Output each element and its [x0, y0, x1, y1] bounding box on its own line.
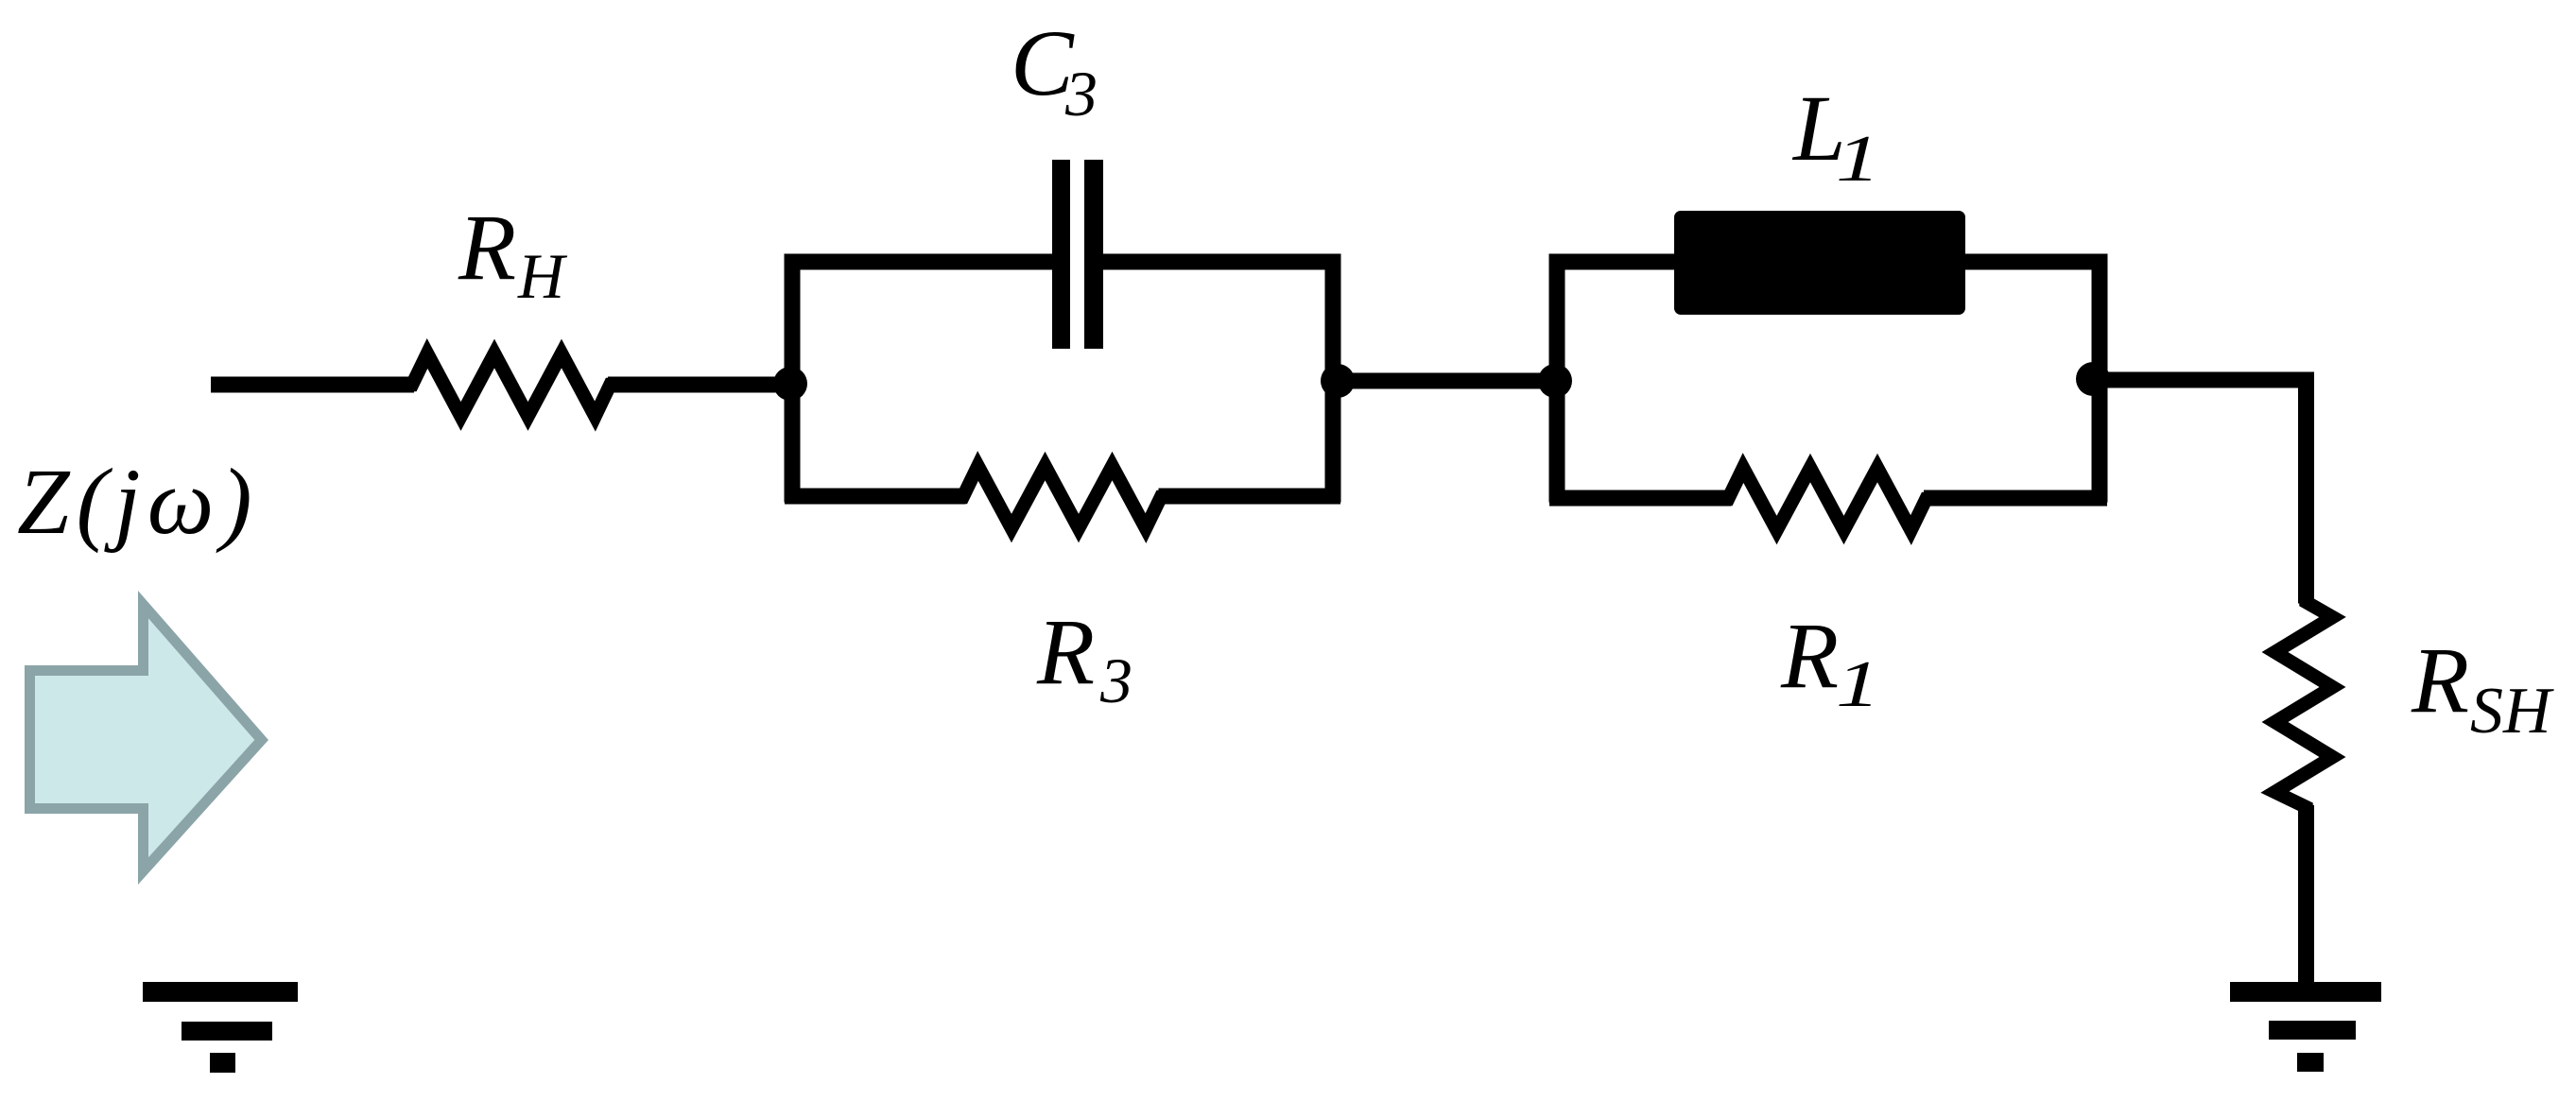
wire block2 right bar: [2092, 254, 2108, 503]
label R3: [1036, 599, 1132, 716]
svg-text:R: R: [1036, 599, 1095, 704]
node B junction dot: [1321, 364, 1355, 398]
wire input left segment: [211, 377, 414, 393]
wire RSH to ground: [2298, 805, 2314, 988]
svg-text:Z(jω): Z(jω): [17, 449, 259, 554]
svg-text:3: 3: [1099, 645, 1132, 716]
wire block2 bottom right segment: [1924, 490, 2107, 507]
label R1: [1780, 603, 1880, 721]
label RH: [458, 195, 568, 312]
svg-text:1: 1: [1836, 648, 1880, 721]
svg-text:3: 3: [1064, 58, 1098, 129]
wire block1 bottom left segment: [785, 489, 965, 505]
svg-text:R: R: [2411, 628, 2469, 732]
node D junction dot: [2076, 362, 2110, 396]
resistor RH: [406, 353, 616, 417]
wire RH to node A: [608, 377, 792, 393]
inductor L1: [1674, 211, 1965, 315]
svg-text:H: H: [517, 240, 568, 312]
svg-text:1: 1: [1836, 123, 1880, 196]
resistor R1: [1721, 468, 1933, 530]
wire block1 top left segment: [785, 254, 1056, 270]
wire block1 top right segment: [1099, 254, 1340, 270]
resistor R3: [957, 466, 1168, 528]
svg-text:R: R: [1780, 603, 1839, 708]
wire block1 bottom right segment: [1159, 489, 1341, 505]
ground right: [2230, 982, 2381, 1072]
svg-text:SH: SH: [2470, 675, 2554, 748]
label RSH: [2411, 628, 2554, 748]
ground left: [143, 982, 298, 1073]
wire output to corner and down: [2093, 380, 2307, 604]
resistor RSH: [2275, 594, 2333, 815]
label C3: [1011, 10, 1098, 129]
label L1: [1791, 76, 1880, 196]
wire block2 bottom left segment: [1549, 490, 1731, 507]
wire block2 top segment: [1549, 254, 2107, 270]
svg-text:R: R: [458, 195, 516, 300]
node C junction dot: [1538, 364, 1572, 398]
wire between blocks: [1333, 373, 1565, 389]
capacitor C3: [1052, 160, 1103, 349]
wire block1 right bar: [1325, 254, 1341, 503]
arrow impedance direction: [25, 591, 268, 885]
wire block2 left bar: [1549, 254, 1565, 503]
wire block1 left bar: [785, 254, 801, 503]
node A junction dot: [773, 367, 807, 401]
